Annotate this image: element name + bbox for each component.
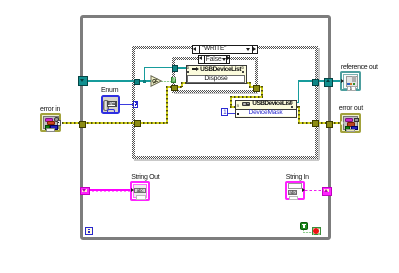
- shift register right (refnum): [324, 78, 334, 87]
- wire: refnum teal vertical branch up: [144, 67, 146, 81]
- wire: error case tunnel to loop tunnel: [317, 122, 327, 124]
- invoke node method text "Dispose": [186, 76, 246, 83]
- String In label: [286, 174, 309, 181]
- tunnel: error on loop right border: [326, 121, 333, 128]
- reference out document glyph: [346, 76, 358, 87]
- wire: boolean dotted from triangle to inner selector: [161, 81, 173, 82]
- error out input arrow: [341, 121, 344, 125]
- error out cluster indicator icon: [340, 113, 361, 133]
- wire: error loop tunnel to error out: [330, 122, 341, 124]
- boolean constant T: [300, 222, 308, 230]
- wire: error loop tunnel to case tunnel: [83, 122, 135, 124]
- invoke node corner glyph b (left): [187, 66, 190, 71]
- invoke node arrow icon: [192, 68, 197, 70]
- wire: numeric blue from 1 constant to property node: [228, 113, 236, 114]
- selector label "WRITE" (outer case): [192, 45, 258, 54]
- enum constant icon: [101, 95, 120, 114]
- wire: error from property node right to case tunnel: [297, 106, 300, 108]
- while loop: [80, 15, 332, 240]
- selector label "False" (inner case): [198, 55, 230, 64]
- property node corner glyphs (right): [291, 101, 294, 106]
- tunnel: error on inner case right border: [253, 85, 260, 92]
- case structure (outer, WRITE) border: [132, 46, 319, 159]
- wire: enum blue to case selector: [119, 104, 134, 105]
- wire: string from left shift register to String Out: [88, 189, 130, 191]
- reference out input arrow: [341, 79, 344, 83]
- shift register right (string): [322, 187, 332, 195]
- case structure (outer) interior: [135, 49, 316, 156]
- shift register left (string): [80, 187, 89, 195]
- wire: refnum teal from case tunnel to right shift register and out to reference out: [317, 80, 341, 82]
- tunnel: error on inner case left border: [171, 85, 178, 91]
- iteration terminal i: [85, 227, 93, 235]
- tunnel: teal on outer case right: [312, 79, 319, 86]
- numeric constant 1: [221, 108, 228, 116]
- tunnel: teal on inner case left: [172, 65, 179, 72]
- case structure (inner) interior: [175, 60, 255, 90]
- property node input bullet: [237, 113, 239, 115]
- wire: string dashed from String In to right shift register: [305, 190, 322, 191]
- function: Not A Number/Path/Refnum? triangle: [150, 75, 163, 87]
- error in label: [40, 106, 60, 113]
- wire junction (teal): [143, 80, 146, 83]
- loop condition terminal (stop if true): [312, 227, 321, 235]
- wire: error inside case rightwards: [139, 122, 168, 124]
- tunnel: error on outer case right border: [312, 120, 319, 127]
- invoke node corner glyph b (right): [242, 66, 245, 71]
- wire: error from inner tunnel around to property node: [258, 86, 263, 88]
- tunnel: error on outer case left border: [134, 120, 141, 127]
- wire: boolean dashed from T constant to loop condition: [303, 229, 304, 233]
- wire: error inside inner case to invoke node: [176, 86, 182, 88]
- enum constant label: [101, 87, 118, 94]
- invoke node U1 frame: [186, 65, 247, 84]
- wire: error from invoke node to inner right tunnel: [246, 82, 250, 84]
- wire: refnum teal from left shift register to case tunnel and triangle: [86, 80, 151, 82]
- property node "DeviceMask" text: [235, 110, 296, 117]
- reference out label: [341, 64, 378, 71]
- String In control icon: [285, 181, 305, 201]
- case structure (outer) shadow: [134, 159, 319, 161]
- case structure (inner) shadow: [174, 93, 258, 94]
- property node corner glyph n (left): [237, 104, 240, 109]
- reference out refnum indicator icon: [340, 71, 361, 91]
- property node property row: [236, 109, 296, 117]
- case selector terminal (inner, boolean): [171, 77, 176, 84]
- property node title "USBDeviceList": [252, 101, 291, 108]
- error in cluster constant icon: [40, 113, 61, 133]
- tunnel: error on loop left border: [79, 121, 86, 128]
- tunnel: teal on outer case left: [134, 79, 141, 86]
- wire: refnum teal horizontal into inner case tunnel: [144, 67, 175, 69]
- String Out indicator icon: [130, 181, 150, 201]
- case structure (inner, False) border: [172, 57, 258, 93]
- shift register left (refnum): [78, 76, 88, 85]
- String In output arrow: [302, 188, 305, 192]
- invoke node method row: [187, 75, 245, 83]
- wire: refnum teal inside inner case to invoke node: [175, 67, 186, 69]
- property node U2 frame: [235, 100, 297, 118]
- wire: refnum teal from property node up and right to tunnels: [297, 102, 300, 104]
- property node camera icon: [242, 102, 251, 107]
- wire: error in to loop tunnel: [62, 122, 80, 124]
- String Out label: [131, 174, 159, 181]
- error out label: [339, 105, 363, 112]
- invoke node title "USBDeviceList": [200, 67, 241, 74]
- wire: error vertical up to inner case: [166, 86, 168, 125]
- case selector terminal (outer, enum): [133, 101, 138, 108]
- wire: error into inner case tunnel: [166, 86, 173, 88]
- String Out input arrow: [131, 188, 134, 192]
